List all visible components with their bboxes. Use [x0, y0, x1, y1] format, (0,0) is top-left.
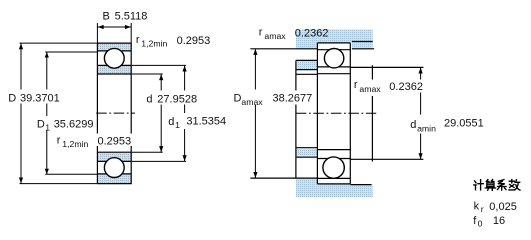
D extension top — [20, 42, 97, 44]
svg-text:D: D — [234, 92, 242, 104]
right wing relief line — [352, 41, 373, 43]
svg-text:1: 1 — [175, 120, 180, 130]
ball bottom — [104, 158, 124, 178]
svg-text:39.3701: 39.3701 — [20, 92, 60, 104]
d dimension — [132, 74, 163, 152]
ball top — [104, 48, 124, 68]
svg-text:k: k — [474, 201, 480, 213]
D dimension line — [20, 43, 22, 89]
d_amin dimension line — [420, 67, 422, 159]
svg-text:D: D — [8, 92, 16, 104]
B dimension line — [97, 26, 131, 28]
glyph 计 — [474, 180, 484, 190]
bore bottom line — [97, 151, 131, 153]
shaft shoulder bottom-left (shaded) — [296, 149, 317, 156]
right bearing left edge — [316, 43, 318, 184]
d_a extension bottom — [350, 158, 423, 160]
B arrows — [98, 25, 104, 29]
D1 dimension — [45, 52, 97, 174]
svg-text:d: d — [146, 94, 152, 106]
outer ring top band (shaded) — [97, 43, 131, 51]
outer ring bottom band (shaded) — [97, 174, 131, 184]
shaft shoulder top surface line — [296, 59, 318, 61]
svg-text:amax: amax — [264, 31, 286, 41]
shaft shoulder top-left (shaded) — [296, 61, 317, 70]
D extension bottom — [20, 183, 97, 185]
cage/inner boundary top — [97, 64, 131, 66]
svg-text:r: r — [57, 135, 61, 147]
axis centerline left drawing — [96, 112, 135, 114]
left boundary vertical line — [295, 60, 297, 90]
housing top band (shaded) — [296, 29, 373, 42]
D_amax dimension line — [254, 49, 256, 178]
d1 dimension — [132, 65, 186, 161]
svg-text:r: r — [136, 34, 140, 46]
svg-text:1: 1 — [45, 123, 50, 133]
svg-text:D: D — [37, 119, 45, 131]
svg-text:16: 16 — [493, 215, 505, 227]
housing shoulder face line top — [250, 48, 317, 50]
outer/cage boundary top — [97, 50, 131, 52]
bearing top edge — [97, 42, 132, 44]
svg-text:0.2953: 0.2953 — [98, 135, 132, 147]
left edge segments (gap for 0.2953 text) — [96, 43, 98, 133]
B extension lines — [96, 23, 98, 43]
shaft shoulder bottom line — [296, 156, 318, 158]
svg-text:0: 0 — [478, 218, 483, 228]
right bearing internal boundaries — [317, 49, 350, 51]
d_a extension top — [350, 66, 423, 68]
svg-text:0,025: 0,025 — [489, 201, 517, 213]
svg-text:0.2362: 0.2362 — [295, 27, 329, 39]
right edge segments — [130, 43, 132, 133]
D dimension — [20, 43, 97, 184]
svg-text:29.0551: 29.0551 — [444, 117, 484, 129]
shaft seat line bottom — [296, 147, 318, 149]
svg-text:d: d — [410, 119, 416, 131]
svg-text:r: r — [259, 27, 263, 39]
B dimension — [97, 23, 131, 43]
inner/cage boundary bottom — [97, 160, 131, 162]
svg-text:r: r — [354, 79, 358, 91]
housing shoulder face line bottom (with D_amax ext) — [250, 177, 317, 179]
svg-text:0.2953: 0.2953 — [177, 35, 211, 47]
right bearing right edge — [349, 43, 351, 184]
svg-text:1,2min: 1,2min — [141, 39, 167, 49]
housing bottom band (shaded) — [317, 184, 373, 197]
housing shoulder top-left wing — [296, 43, 317, 49]
right vertical line (shaft end) — [371, 65, 373, 79]
inner ring top band (shaded) — [97, 65, 131, 74]
svg-text:38.2677: 38.2677 — [273, 93, 313, 105]
svg-text:5.5118: 5.5118 — [115, 11, 148, 23]
svg-text:amin: amin — [417, 123, 436, 133]
shaft seat line top — [296, 73, 318, 75]
housing bottom-left wing (shaded) — [296, 179, 317, 198]
svg-text:r: r — [481, 204, 484, 214]
right bearing ball bottom — [323, 157, 344, 178]
glyph 数 — [509, 180, 520, 191]
svg-text:27.9528: 27.9528 — [157, 94, 197, 106]
svg-text:1,2min: 1,2min — [62, 139, 88, 149]
svg-text:0.2362: 0.2362 — [389, 81, 423, 93]
svg-text:d: d — [168, 116, 174, 128]
svg-text:B: B — [103, 11, 110, 23]
bearing bottom edge (right) — [317, 183, 350, 185]
bore top line — [97, 73, 131, 75]
right bearing ball top — [324, 49, 343, 68]
axis centerline right drawing — [296, 112, 376, 114]
CJK heading 计算系数 (drawn strokes) — [474, 180, 520, 191]
svg-text:35.6299: 35.6299 — [54, 119, 94, 131]
svg-text:31.5354: 31.5354 — [186, 116, 226, 128]
bearing bottom edge — [97, 183, 132, 185]
shaft shoulder top bottom line — [296, 69, 318, 71]
cage/outer boundary bottom — [97, 173, 131, 175]
glyph 算 — [485, 180, 495, 191]
glyph 系 — [497, 180, 506, 191]
bearing top edge (right) — [317, 42, 350, 44]
inner ring bottom band (shaded) — [97, 152, 131, 161]
housing shoulder top-right wing — [352, 42, 373, 49]
svg-text:amax: amax — [359, 84, 381, 94]
svg-text:amax: amax — [241, 97, 263, 107]
housing line bottom-right — [350, 184, 371, 186]
